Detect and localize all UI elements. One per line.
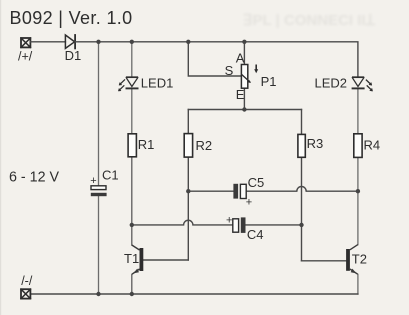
- wire: R1 to T1 collector: [131, 157, 133, 245]
- wire: T1 emitter to bottom rail: [131, 274, 133, 294]
- wire: LED1 branch from top rail: [131, 42, 133, 77]
- node bottom rail / C1: [96, 292, 100, 296]
- wire: mid rail to R3: [301, 110, 303, 135]
- svg-text:R3: R3: [307, 136, 324, 151]
- node C5 / T1 base line: [186, 189, 190, 193]
- wire: P1 A lead: [243, 42, 245, 65]
- wire: R3 to T2 base corner: [301, 157, 303, 260]
- wire: R2 to T1 base corner: [187, 157, 189, 260]
- wire: P1 E lead: [243, 88, 245, 109]
- svg-text:S: S: [225, 63, 234, 78]
- wire: C4 row left with hop over R2 line: [132, 220, 233, 225]
- wire: C1 branch lower: [98, 196, 100, 294]
- wire: R4 to T2 collector: [357, 157, 359, 244]
- node top rail / S branch: [186, 40, 190, 44]
- svg-text:P1: P1: [261, 74, 277, 89]
- terminal /+/: [21, 38, 30, 47]
- svg-text:R1: R1: [138, 137, 155, 152]
- node C5 / T2 collector line: [356, 189, 360, 193]
- resistor R1: [128, 134, 136, 157]
- svg-text:+: +: [226, 215, 232, 227]
- node top rail / P1 A: [242, 40, 246, 44]
- wire: P1 S branch (top rail down and right to wiper): [188, 42, 241, 76]
- svg-text:6 - 12 V: 6 - 12 V: [9, 169, 60, 185]
- svg-text:D1: D1: [65, 48, 82, 63]
- LED1: [119, 77, 139, 91]
- svg-text:A: A: [236, 51, 245, 66]
- wire: bottom rail: [30, 293, 358, 295]
- wire: /+/ terminal to D1: [30, 41, 65, 43]
- resistor R2: [184, 134, 192, 158]
- terminal /-/: [21, 289, 30, 298]
- wire: T1 base lead: [143, 259, 188, 261]
- wire: top rail D1 to top-right corner: [75, 42, 358, 77]
- wire: LED2 to R4: [357, 88, 359, 133]
- wire: T2 emitter drop: [357, 274, 359, 294]
- svg-text:/+/: /+/: [18, 50, 33, 64]
- wire: LED1 to R1: [131, 88, 133, 133]
- svg-text:R2: R2: [196, 138, 213, 153]
- node P1 E / mid rail: [242, 107, 246, 111]
- transistor T1: [132, 245, 144, 274]
- wire: mid rail to R2: [187, 110, 189, 134]
- svg-text:LED1: LED1: [141, 75, 174, 90]
- node top rail / C1: [96, 40, 100, 44]
- capacitor C4: [233, 217, 246, 233]
- bleed-through ghost text top-right: [243, 12, 376, 29]
- resistor R3: [298, 134, 305, 157]
- svg-text:C1: C1: [102, 168, 119, 183]
- svg-text:E: E: [236, 87, 245, 102]
- wire: T2 base lead: [302, 260, 347, 262]
- resistor R4: [354, 134, 362, 158]
- svg-text:B092 | Ver. 1.0: B092 | Ver. 1.0: [10, 8, 133, 28]
- svg-text:+: +: [246, 197, 252, 209]
- wire: C4 row right: [246, 224, 302, 226]
- capacitor C5: [233, 184, 246, 199]
- svg-text:ꓱPL | CONNEC﻿I IIꓕ: ꓱPL | CONNEC﻿I IIꓕ: [243, 12, 376, 29]
- svg-text:C4: C4: [247, 227, 264, 242]
- transistor T2: [346, 245, 358, 275]
- svg-text:T2: T2: [352, 252, 367, 267]
- wire: mid rail R2 corner to R3 corner: [188, 109, 301, 111]
- node C4 / T1 collector line: [130, 223, 134, 227]
- svg-text:+: +: [90, 175, 96, 187]
- scanner left edge streak: [0, 0, 1, 315]
- svg-text:C5: C5: [248, 175, 265, 190]
- LED2: [352, 77, 373, 91]
- wire: C1 branch upper: [98, 42, 100, 186]
- svg-text:T1: T1: [124, 251, 139, 266]
- svg-text:/-/: /-/: [21, 274, 33, 288]
- node top rail / LED1: [130, 40, 134, 44]
- node bottom rail / T1 emitter: [130, 292, 134, 296]
- svg-text:R4: R4: [364, 138, 381, 153]
- potentiometer P1: [241, 65, 258, 89]
- capacitor C1: [91, 186, 107, 196]
- wire: C5 row right with hop over R3 line: [246, 186, 358, 191]
- svg-text:LED2: LED2: [315, 75, 348, 90]
- diode D1: [65, 35, 75, 48]
- node C4 / R3 line: [299, 223, 303, 227]
- wire: C5 row left: [188, 190, 233, 192]
